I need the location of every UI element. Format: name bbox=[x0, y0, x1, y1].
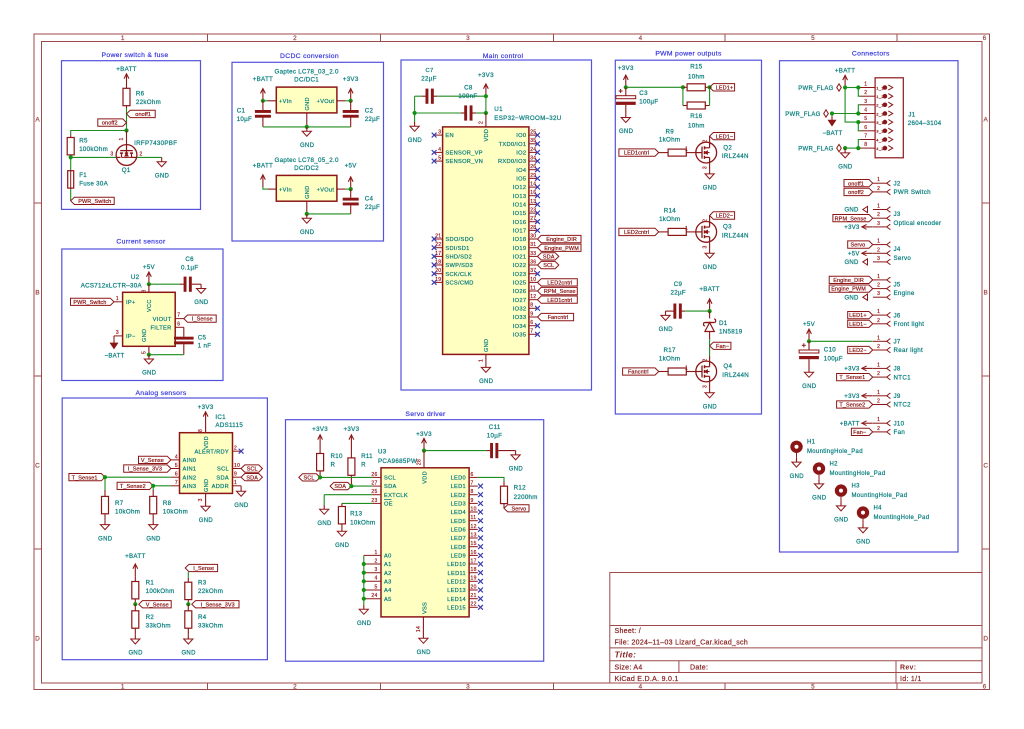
svg-text:J6: J6 bbox=[894, 312, 901, 319]
svg-text:IO26: IO26 bbox=[513, 289, 527, 295]
pin A4 5 U3 bbox=[364, 589, 381, 591]
no-connect LED2 bbox=[478, 492, 483, 497]
transistor Q1 IRFP7430PBF bbox=[116, 145, 137, 166]
svg-text:SDA: SDA bbox=[384, 484, 397, 490]
svg-text:ESP32−WROOM‒32U: ESP32−WROOM‒32U bbox=[494, 115, 561, 122]
capacitor C3 bbox=[625, 87, 627, 96]
no-connect SENSOR_VN bbox=[432, 159, 437, 164]
pin IO0 25 U1 bbox=[529, 134, 538, 136]
power +3V3 analog bbox=[205, 412, 207, 424]
pin AIN3 7 IC1 bbox=[171, 485, 180, 487]
svg-text:Q3: Q3 bbox=[723, 224, 732, 231]
section box Analog sensors bbox=[62, 398, 267, 660]
svg-text:R1: R1 bbox=[146, 580, 155, 587]
pin 5 bbox=[860, 121, 875, 123]
svg-text:FILTER: FILTER bbox=[151, 326, 172, 332]
mounting hole H3 bbox=[835, 484, 847, 496]
svg-text:T_Sense1: T_Sense1 bbox=[839, 375, 865, 381]
svg-text:GND: GND bbox=[317, 521, 332, 527]
svg-text:R9: R9 bbox=[665, 128, 674, 135]
svg-text:C4: C4 bbox=[365, 196, 374, 203]
svg-text:onoff1: onoff1 bbox=[848, 181, 864, 187]
svg-text:17: 17 bbox=[471, 558, 477, 564]
pin LED14 21 U3 bbox=[469, 598, 478, 600]
svg-text:GND: GND bbox=[703, 265, 718, 271]
global label Fan- pwm bbox=[710, 342, 731, 349]
svg-text:C6: C6 bbox=[185, 256, 194, 263]
junction A3 bbox=[362, 579, 366, 583]
global label T_Sense2 J9 bbox=[837, 401, 873, 408]
svg-text:1: 1 bbox=[877, 309, 880, 315]
svg-text:onoff1: onoff1 bbox=[135, 112, 151, 118]
pin drain Q3 bbox=[709, 216, 711, 222]
svg-text:8: 8 bbox=[198, 429, 204, 432]
svg-text:LED14: LED14 bbox=[447, 597, 466, 603]
wire bbox=[137, 156, 162, 158]
no-connect LED5 bbox=[478, 518, 483, 523]
svg-text:File: 2024–11–03 Lizard_Car.ki: File: 2024–11–03 Lizard_Car.kicad_sch bbox=[615, 640, 749, 647]
global label I_Sense_3V3 divider bbox=[192, 601, 239, 608]
pin IO23 37 U1 bbox=[529, 273, 538, 275]
led driver U3 PCA9685PW body bbox=[381, 468, 469, 617]
svg-text:3: 3 bbox=[466, 684, 470, 691]
wire bbox=[858, 140, 860, 149]
wire bbox=[263, 100, 268, 102]
pin IO14 13 U1 bbox=[529, 203, 538, 205]
svg-text:F1: F1 bbox=[79, 172, 87, 179]
svg-text:I_Sense_3V3: I_Sense_3V3 bbox=[128, 467, 162, 473]
svg-text:C8: C8 bbox=[464, 85, 473, 92]
global label LED1- pwm bbox=[710, 133, 735, 140]
svg-text:TXD0/IO1: TXD0/IO1 bbox=[499, 142, 527, 148]
section box DCDC conversion bbox=[232, 62, 384, 241]
svg-text:7: 7 bbox=[177, 313, 180, 319]
svg-text:3: 3 bbox=[702, 166, 708, 169]
pin IO21 33 U1 bbox=[529, 255, 538, 257]
pin A5 24 U3 bbox=[364, 598, 381, 600]
svg-text:Servo driver: Servo driver bbox=[405, 411, 446, 418]
svg-text:Q4: Q4 bbox=[723, 363, 732, 370]
wire bbox=[845, 147, 860, 149]
section box Power switch & fuse bbox=[62, 61, 201, 210]
wire bbox=[152, 486, 154, 490]
svg-text:1: 1 bbox=[877, 417, 880, 423]
svg-text:100kOhm: 100kOhm bbox=[146, 588, 175, 595]
svg-text:+3V3: +3V3 bbox=[844, 394, 860, 400]
resistor R14 bbox=[659, 231, 668, 233]
pin IO5 29 U1 bbox=[529, 177, 538, 179]
junction bbox=[856, 120, 860, 124]
svg-text:2: 2 bbox=[293, 35, 297, 42]
svg-text:GND: GND bbox=[204, 479, 210, 492]
wire A0-A5 bus bbox=[363, 555, 365, 598]
pin SDA 9 IC1 bbox=[233, 476, 242, 478]
pin source Q2 bbox=[709, 163, 711, 170]
section box PWM power outputs bbox=[615, 60, 761, 414]
wire bbox=[70, 189, 72, 201]
svg-text:KiCad E.D.A. 9.0.1: KiCad E.D.A. 9.0.1 bbox=[615, 676, 679, 683]
no-connect IO13 bbox=[535, 193, 540, 198]
pin 1 bbox=[873, 244, 887, 246]
pin IO22 36 U1 bbox=[529, 264, 538, 266]
svg-text:AIN3: AIN3 bbox=[183, 484, 197, 490]
global label LED2- pwm bbox=[710, 212, 735, 219]
wire bbox=[414, 113, 416, 122]
junction bbox=[681, 85, 685, 89]
svg-text:Front light: Front light bbox=[894, 321, 925, 328]
svg-text:IO4: IO4 bbox=[516, 168, 526, 174]
svg-text:IO19: IO19 bbox=[513, 246, 527, 252]
svg-text:4: 4 bbox=[438, 147, 441, 153]
svg-text:IO27: IO27 bbox=[513, 298, 527, 304]
svg-text:GND: GND bbox=[838, 165, 853, 171]
resistor R1 bbox=[134, 576, 136, 581]
svg-text:SDI/SD1: SDI/SD1 bbox=[445, 246, 469, 252]
svg-text:C: C bbox=[35, 462, 40, 469]
wire bbox=[126, 108, 128, 131]
svg-text:I_Sense_3V3: I_Sense_3V3 bbox=[201, 602, 235, 608]
svg-text:T_Sense2: T_Sense2 bbox=[839, 403, 865, 409]
no-connect IO12 bbox=[535, 185, 540, 190]
svg-text:SCL: SCL bbox=[543, 263, 554, 269]
svg-text:10µF: 10µF bbox=[237, 116, 252, 123]
svg-text:R6: R6 bbox=[136, 90, 145, 97]
svg-text:6: 6 bbox=[471, 472, 474, 478]
no-connect IO35 bbox=[535, 332, 540, 337]
svg-text:IRFP7430PBF: IRFP7430PBF bbox=[134, 140, 177, 147]
svg-text:Size: A4: Size: A4 bbox=[615, 665, 643, 672]
connector J1 body bbox=[875, 78, 903, 158]
pin 3 bbox=[873, 296, 887, 298]
pin ADDR 1 IC1 bbox=[233, 485, 242, 487]
power flag PWR_FLAG 2 bbox=[824, 110, 829, 117]
pin 1 bbox=[873, 395, 887, 397]
no-connect LED13 bbox=[478, 588, 483, 593]
svg-text:Connectors: Connectors bbox=[852, 51, 890, 58]
pin H2 bbox=[818, 475, 820, 480]
power +BATT J1 bbox=[844, 75, 846, 87]
svg-text:LED11: LED11 bbox=[448, 571, 466, 577]
pin IO34 6 U1 bbox=[529, 325, 538, 327]
svg-text:10: 10 bbox=[471, 506, 477, 512]
svg-text:AIN0: AIN0 bbox=[183, 458, 197, 464]
pin IO35 7 U1 bbox=[529, 333, 538, 335]
svg-text:LED13: LED13 bbox=[447, 588, 466, 594]
diode D1 1N5819 bbox=[709, 311, 711, 318]
pin LED1 7 U3 bbox=[469, 485, 478, 487]
pin 1 bbox=[873, 182, 887, 184]
pin +VOut DC/DC1 bbox=[337, 100, 346, 102]
pin 3 bbox=[873, 226, 887, 228]
svg-text:Servo: Servo bbox=[511, 506, 526, 512]
junction bbox=[69, 155, 73, 159]
pin 2 bbox=[873, 288, 887, 290]
wire bbox=[682, 87, 684, 105]
ground ADDR bbox=[240, 487, 242, 491]
no-connect SDO/SDO bbox=[432, 237, 437, 242]
svg-text:2: 2 bbox=[877, 247, 880, 253]
pin drain Q2 bbox=[709, 136, 711, 142]
svg-text:−BATT: −BATT bbox=[823, 131, 843, 137]
svg-text:LED1cntrl: LED1cntrl bbox=[547, 298, 572, 304]
pin H4 bbox=[862, 519, 864, 524]
svg-text:IRLZ44N: IRLZ44N bbox=[722, 233, 749, 240]
svg-text:SDA: SDA bbox=[334, 484, 346, 490]
svg-text:C9: C9 bbox=[674, 281, 683, 288]
svg-text:21: 21 bbox=[471, 593, 477, 599]
junction +3V3 main bbox=[484, 94, 488, 98]
svg-text:VSS: VSS bbox=[422, 602, 428, 614]
mounting hole H2 bbox=[813, 462, 825, 474]
pin SENSOR_VN 5 U1 bbox=[434, 160, 443, 162]
svg-text:22µF: 22µF bbox=[670, 290, 685, 297]
svg-text:PWR_FLAG: PWR_FLAG bbox=[785, 112, 820, 118]
pin source Q4 bbox=[709, 382, 711, 389]
svg-text:2200hm: 2200hm bbox=[514, 494, 538, 501]
svg-text:1: 1 bbox=[685, 147, 688, 153]
svg-text:+VIn: +VIn bbox=[279, 99, 292, 105]
svg-text:IO2: IO2 bbox=[516, 151, 526, 157]
svg-text:GND: GND bbox=[142, 371, 157, 377]
junction bbox=[261, 99, 265, 103]
svg-text:6: 6 bbox=[983, 35, 987, 42]
pin A2 3 U3 bbox=[364, 572, 381, 574]
svg-text:1: 1 bbox=[116, 296, 119, 302]
svg-text:I_Sense: I_Sense bbox=[192, 317, 213, 323]
pin drain Q4 bbox=[709, 356, 711, 361]
svg-text:−BATT: −BATT bbox=[105, 354, 125, 360]
wire -BATT bbox=[831, 114, 833, 117]
pin VDD IC1 bbox=[205, 424, 207, 433]
svg-text:ALERT/RDY: ALERT/RDY bbox=[194, 449, 229, 455]
pin 2 bbox=[873, 217, 887, 219]
svg-text:R: R bbox=[331, 462, 336, 469]
global label SDA servo bbox=[330, 482, 351, 489]
svg-text:LED9: LED9 bbox=[451, 554, 466, 560]
svg-text:Fancntrl: Fancntrl bbox=[548, 315, 569, 321]
svg-text:IO25: IO25 bbox=[513, 281, 527, 287]
pin +VIn DC/DC2 bbox=[268, 188, 277, 190]
pin LED3 9 U3 bbox=[469, 502, 478, 504]
pin LED12 19 U3 bbox=[469, 580, 478, 582]
svg-text:ADS1115: ADS1115 bbox=[215, 422, 243, 429]
pin 2 bbox=[873, 191, 887, 193]
pin LED7 13 U3 bbox=[469, 537, 478, 539]
svg-text:100µF: 100µF bbox=[824, 356, 843, 363]
no-connect SHD/SD2 bbox=[432, 254, 437, 259]
no-connect IO17 bbox=[535, 228, 540, 233]
no-connect SENSOR_VP bbox=[432, 150, 437, 155]
svg-text:LED2cntrl: LED2cntrl bbox=[547, 281, 572, 287]
svg-text:Rev:: Rev: bbox=[900, 665, 916, 672]
svg-text:PWR_Switch: PWR_Switch bbox=[78, 199, 111, 205]
svg-text:2: 2 bbox=[877, 426, 880, 432]
wire bbox=[832, 113, 861, 115]
svg-text:R10: R10 bbox=[331, 453, 344, 460]
power +BATT J10 bbox=[862, 422, 873, 424]
global label SDA analog bbox=[241, 474, 262, 481]
svg-text:A4: A4 bbox=[384, 588, 392, 594]
pin SCS/CMD 19 U1 bbox=[434, 281, 443, 283]
global label RPM_Sense J3 bbox=[833, 215, 873, 222]
svg-text:0.1µF: 0.1µF bbox=[181, 264, 198, 271]
global label Servo J4 bbox=[848, 241, 873, 248]
svg-text:LED1+: LED1+ bbox=[849, 313, 866, 319]
svg-text:SCL: SCL bbox=[304, 476, 315, 482]
svg-text:22µF: 22µF bbox=[365, 116, 380, 123]
svg-text:J5: J5 bbox=[894, 281, 901, 288]
svg-text:IO22: IO22 bbox=[513, 263, 527, 269]
wire bbox=[71, 156, 116, 158]
global label I_Sense divider bbox=[185, 564, 217, 571]
svg-text:IO14: IO14 bbox=[513, 203, 527, 209]
svg-text:Rear light: Rear light bbox=[894, 347, 923, 354]
pin SDO/SDO 21 U1 bbox=[434, 238, 443, 240]
svg-text:6: 6 bbox=[864, 125, 867, 131]
ground Q2 bbox=[709, 170, 711, 174]
pin IO16 27 U1 bbox=[529, 221, 538, 223]
svg-text:VDD: VDD bbox=[422, 471, 428, 484]
svg-text:Q2: Q2 bbox=[723, 144, 732, 151]
svg-text:2: 2 bbox=[478, 121, 484, 124]
svg-text:SHD/SD2: SHD/SD2 bbox=[445, 255, 472, 261]
svg-text:1: 1 bbox=[877, 177, 880, 183]
svg-text:+BATT: +BATT bbox=[125, 553, 145, 560]
pin IO19 31 U1 bbox=[529, 247, 538, 249]
global label Engine_PWM bbox=[538, 244, 582, 251]
power +BATT dcdc1 bbox=[262, 89, 264, 101]
pin IO15 23 U1 bbox=[529, 212, 538, 214]
power +3V3 dcdc1 bbox=[350, 89, 352, 101]
svg-text:AIN1: AIN1 bbox=[183, 467, 197, 473]
svg-text:SCK/CLK: SCK/CLK bbox=[445, 272, 471, 278]
svg-text:GND: GND bbox=[305, 97, 311, 110]
wire bbox=[485, 96, 487, 113]
pin 2 bbox=[873, 404, 887, 406]
pin IO12 14 U1 bbox=[529, 186, 538, 188]
svg-text:Servo: Servo bbox=[894, 255, 912, 262]
ground IC1 bbox=[205, 502, 207, 506]
svg-text:22kOhm: 22kOhm bbox=[198, 588, 223, 595]
junction bbox=[124, 128, 128, 132]
no-connect LED11 bbox=[478, 570, 483, 575]
global label LED1cntrl bbox=[538, 296, 578, 303]
svg-text:22: 22 bbox=[471, 602, 477, 608]
svg-text:1: 1 bbox=[877, 239, 880, 245]
svg-text:T_Sense1: T_Sense1 bbox=[72, 475, 98, 481]
pin A1 2 U3 bbox=[364, 563, 381, 565]
svg-text:3: 3 bbox=[375, 567, 378, 573]
svg-text:+5V: +5V bbox=[143, 264, 156, 271]
svg-text:SDA: SDA bbox=[216, 475, 229, 481]
svg-text:100µF: 100µF bbox=[639, 99, 658, 106]
svg-text:J8: J8 bbox=[894, 366, 901, 373]
pin 1 bbox=[873, 367, 887, 369]
ground U3 bbox=[422, 634, 424, 638]
pin +VIn DC/DC1 bbox=[268, 100, 277, 102]
svg-text:7: 7 bbox=[471, 481, 474, 487]
ground C10 bbox=[808, 368, 810, 372]
svg-text:U2: U2 bbox=[131, 274, 140, 281]
no-connect SCS/CMD bbox=[432, 280, 437, 285]
svg-text:ADDR: ADDR bbox=[212, 484, 229, 490]
svg-text:1: 1 bbox=[121, 684, 125, 691]
svg-text:11: 11 bbox=[471, 515, 477, 521]
pin SCL 26 U3 bbox=[372, 476, 381, 478]
ground Q4 bbox=[709, 389, 711, 393]
svg-text:3: 3 bbox=[877, 256, 880, 262]
capacitor C5 bbox=[183, 327, 185, 333]
junction bbox=[349, 187, 353, 191]
svg-text:R17: R17 bbox=[663, 347, 676, 354]
svg-text:PWM power outputs: PWM power outputs bbox=[655, 50, 722, 57]
junction bbox=[624, 85, 628, 89]
pin IO26 11 U1 bbox=[529, 290, 538, 292]
svg-text:LED3: LED3 bbox=[451, 502, 466, 508]
svg-text:MountingHole_Pad: MountingHole_Pad bbox=[830, 471, 886, 477]
svg-text:4: 4 bbox=[639, 684, 643, 691]
no-connect RXD0/IO3 bbox=[535, 159, 540, 164]
svg-text:LED12: LED12 bbox=[447, 579, 466, 585]
svg-text:NTC1: NTC1 bbox=[894, 374, 912, 381]
svg-text:IO0: IO0 bbox=[516, 133, 526, 139]
svg-text:5: 5 bbox=[438, 156, 441, 162]
global label LED2− J7 bbox=[848, 346, 873, 353]
power +3V3 J9 bbox=[862, 395, 873, 397]
wire bbox=[187, 572, 189, 578]
svg-text:J3: J3 bbox=[894, 211, 901, 218]
svg-text:R8: R8 bbox=[163, 500, 172, 507]
pin VDD U3 bbox=[423, 451, 425, 468]
svg-text:5: 5 bbox=[811, 35, 815, 42]
svg-text:2: 2 bbox=[140, 151, 143, 157]
svg-text:4: 4 bbox=[639, 35, 643, 42]
pin 6 bbox=[860, 130, 875, 132]
svg-text:1 nF: 1 nF bbox=[198, 343, 212, 350]
svg-text:16: 16 bbox=[471, 550, 477, 556]
ground R13 bbox=[341, 527, 343, 531]
power +3V3 U3 bbox=[423, 438, 425, 450]
global label I_Sense current bbox=[184, 315, 216, 322]
svg-text:C11: C11 bbox=[489, 424, 501, 431]
svg-text:GND: GND bbox=[98, 536, 113, 542]
junction bbox=[147, 353, 151, 357]
svg-text:Current sensor: Current sensor bbox=[116, 239, 166, 246]
wire bbox=[414, 96, 416, 113]
pin VCC U2 bbox=[148, 284, 150, 292]
svg-text:PCA9685PW: PCA9685PW bbox=[378, 458, 417, 465]
pin IP- 3 U2 bbox=[114, 335, 123, 337]
capacitor C7 bbox=[415, 95, 422, 97]
svg-text:GND: GND bbox=[659, 327, 674, 333]
pin H3 bbox=[840, 497, 842, 502]
pin 2 bbox=[873, 376, 887, 378]
svg-text:+3V3: +3V3 bbox=[343, 76, 359, 83]
svg-text:SCS/CMD: SCS/CMD bbox=[445, 281, 473, 287]
power +3V3 pwm bbox=[625, 75, 627, 87]
junction bbox=[843, 146, 847, 150]
svg-text:MountingHole_Pad: MountingHole_Pad bbox=[807, 449, 863, 455]
no-connect LED10 bbox=[478, 562, 483, 567]
svg-text:GND: GND bbox=[844, 260, 859, 266]
svg-text:LED4: LED4 bbox=[451, 510, 466, 516]
pin A3 4 U3 bbox=[364, 580, 381, 582]
svg-text:5: 5 bbox=[864, 116, 867, 122]
wire IP- to -BATT bbox=[113, 336, 115, 339]
pin LED11 18 U3 bbox=[469, 572, 478, 574]
junction bbox=[843, 85, 847, 89]
svg-text:C5: C5 bbox=[198, 335, 207, 342]
